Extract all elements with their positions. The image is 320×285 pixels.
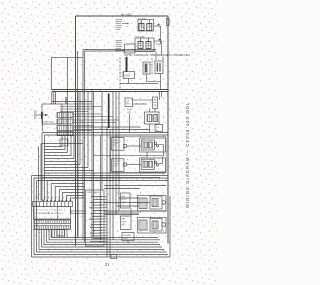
dashed link xyxy=(151,59,153,76)
tiny pin labels above row xyxy=(34,196,70,199)
right mid label box Ra xyxy=(125,98,133,107)
wire xyxy=(58,190,60,201)
wire xyxy=(55,186,84,188)
wire xyxy=(44,161,78,163)
plus marks xyxy=(157,23,160,26)
wire xyxy=(115,92,117,214)
wire xyxy=(85,50,156,52)
wire xyxy=(34,254,168,256)
outer enclosure left edge xyxy=(75,16,77,246)
right box P6 with circle xyxy=(150,219,162,232)
label box N1a xyxy=(112,138,125,151)
wire xyxy=(93,92,95,238)
svg-text:1 2 3 4 5 6 7 8 9 1 0 1 1: 1 2 3 4 5 6 7 8 9 1 0 1 1 xyxy=(35,210,66,212)
wire xyxy=(73,135,75,159)
wire xyxy=(109,130,111,257)
enclosure E1 xyxy=(140,138,166,152)
battery box B2 xyxy=(135,38,154,52)
wire xyxy=(51,183,84,185)
wire xyxy=(44,155,71,157)
staircase verticals xyxy=(41,133,43,201)
wire xyxy=(37,251,167,253)
mid box P2 xyxy=(139,198,147,209)
wire xyxy=(70,135,72,156)
comp box N2b xyxy=(141,159,154,169)
mid box P5 xyxy=(139,220,147,230)
horizontal divider double line xyxy=(51,89,168,91)
lower link rectangle xyxy=(147,74,161,82)
terminal-to-box wires xyxy=(104,210,167,212)
heavy drop wire xyxy=(126,57,128,72)
wire xyxy=(61,193,63,201)
winding box M3 xyxy=(155,61,163,74)
enclosure row1 xyxy=(138,196,167,212)
wires from cluster xyxy=(60,103,92,105)
svg-text:AIR: AIR xyxy=(122,218,126,221)
bottom nested closures xyxy=(51,237,158,239)
wire xyxy=(44,158,74,160)
wire xyxy=(77,51,79,238)
wire xyxy=(65,97,67,104)
wire xyxy=(38,229,40,250)
svg-text:12V BAT: 12V BAT xyxy=(138,17,147,20)
relay stack contacts xyxy=(57,113,74,118)
wire xyxy=(46,180,48,200)
connector hook top right xyxy=(166,19,169,26)
wire xyxy=(46,229,48,242)
wire xyxy=(99,135,101,240)
outer enclosure top edge xyxy=(76,15,169,17)
svg-text:START SOL: START SOL xyxy=(44,121,56,124)
wire xyxy=(43,229,45,245)
wire xyxy=(79,92,81,165)
wire xyxy=(37,180,169,182)
svg-text:RLY: RLY xyxy=(122,202,127,204)
long lower horizontals xyxy=(44,172,166,174)
notes text row xyxy=(124,53,190,57)
outer enclosure right edge xyxy=(167,16,169,244)
verticals into L1 xyxy=(52,92,56,105)
inner box top double line xyxy=(83,49,156,51)
wire xyxy=(106,127,108,257)
block body xyxy=(34,207,71,219)
right bottom verticals xyxy=(169,196,171,257)
wire xyxy=(52,91,168,93)
wire xyxy=(119,197,139,199)
wire xyxy=(82,50,84,241)
wire xyxy=(112,92,114,240)
svg-text:HTR: HTR xyxy=(122,222,127,224)
staircase wires to connector xyxy=(42,177,160,179)
svg-text:NOTE: 1.REMOVE JUMPER WHEN CON: NOTE: 1.REMOVE JUMPER WHEN CONNECTED xyxy=(124,53,190,57)
wire xyxy=(47,179,120,181)
relay line pair to right xyxy=(74,126,140,128)
wire xyxy=(32,256,171,258)
svg-text:CHOKE: CHOKE xyxy=(123,235,131,237)
wire xyxy=(44,164,80,166)
wire xyxy=(44,152,67,154)
wire xyxy=(77,92,79,239)
wire xyxy=(48,229,50,240)
left box top wire xyxy=(51,56,83,58)
bottom tab box xyxy=(111,255,117,259)
drops below xyxy=(52,229,67,237)
paper background xyxy=(0,0,218,285)
wire xyxy=(104,214,139,216)
wire xyxy=(70,197,84,199)
wire xyxy=(101,92,103,191)
left vertical xyxy=(50,57,52,89)
wire xyxy=(44,167,88,169)
terminal block row xyxy=(33,202,73,207)
narrow winding box Rb xyxy=(153,97,158,109)
wire xyxy=(44,170,94,172)
svg-text:B+ NEG: B+ NEG xyxy=(121,12,133,16)
left fan horizontals xyxy=(42,143,84,145)
label box P4 xyxy=(121,216,132,230)
battery box B1 xyxy=(138,20,154,32)
dashed enclosure edge xyxy=(119,58,121,91)
svg-text:27: 27 xyxy=(105,262,110,267)
wire xyxy=(33,178,35,255)
wire stubs from note row xyxy=(127,51,163,62)
label stack 2 with box xyxy=(116,41,123,49)
label above top line xyxy=(121,12,133,16)
svg-text:WIRING DIAGRAM — CF048 400 MDL: WIRING DIAGRAM — CF048 400 MDL xyxy=(185,102,190,208)
wire xyxy=(104,188,140,190)
wire xyxy=(54,187,56,201)
svg-text:12V BAT: 12V BAT xyxy=(136,35,145,38)
svg-text:WIRE TABLE: WIRE TABLE xyxy=(87,191,100,194)
mid verticals bundle xyxy=(66,57,68,153)
wire xyxy=(44,135,46,201)
side title rotated xyxy=(185,102,190,208)
wire xyxy=(44,244,160,246)
coil component M2 xyxy=(143,62,150,74)
pin diamonds xyxy=(42,199,71,201)
page number xyxy=(105,262,110,267)
big enclosure xyxy=(111,137,167,173)
wire xyxy=(116,205,139,207)
wire xyxy=(118,92,120,211)
wire xyxy=(42,132,168,134)
left edge drops xyxy=(38,147,40,201)
battery charger label T1 xyxy=(116,20,129,30)
wire xyxy=(59,189,84,191)
wire xyxy=(62,192,84,194)
label box P1 xyxy=(121,193,131,208)
wire xyxy=(66,195,84,197)
wire from B1 to right xyxy=(156,26,161,44)
enclosure E2 xyxy=(140,158,166,172)
comp box N1b xyxy=(141,140,154,150)
svg-text:HTR: HTR xyxy=(123,238,128,240)
small box below cluster xyxy=(60,139,68,146)
wire xyxy=(61,135,63,147)
small box below block xyxy=(57,230,65,237)
wire xyxy=(84,51,86,242)
wire xyxy=(40,144,42,201)
solenoid coil symbol xyxy=(36,114,49,116)
dense connector teeth rows xyxy=(34,220,71,230)
svg-text:SOL: SOL xyxy=(127,112,132,114)
svg-text:RLY: RLY xyxy=(113,145,118,147)
wire xyxy=(32,175,169,177)
left bundle wrap verticals xyxy=(31,176,33,258)
wire xyxy=(49,239,160,241)
wire xyxy=(36,181,38,253)
svg-text:TB1 TERMINAL BLOCK A: TB1 TERMINAL BLOCK A xyxy=(35,212,62,215)
bottom small box xyxy=(122,233,134,241)
wire xyxy=(52,101,92,103)
start solenoid box L1 xyxy=(42,104,62,124)
svg-text:RLY: RLY xyxy=(122,225,127,227)
wire xyxy=(39,249,164,251)
small label + wire xyxy=(129,114,131,133)
wire xyxy=(50,184,52,201)
label box N2a xyxy=(112,159,125,172)
wire xyxy=(104,202,150,204)
wire xyxy=(104,185,167,187)
svg-text:FUEL: FUEL xyxy=(127,109,133,111)
pair box Rc xyxy=(145,112,160,124)
thick bus xyxy=(108,94,110,129)
wire xyxy=(74,129,150,131)
wire xyxy=(41,229,43,247)
wire xyxy=(44,146,62,148)
wire xyxy=(44,149,65,151)
wire xyxy=(42,246,163,248)
wire xyxy=(45,134,169,136)
svg-text:AIR: AIR xyxy=(122,195,126,198)
wire xyxy=(64,135,66,150)
wire xyxy=(65,196,67,201)
svg-text:HTR: HTR xyxy=(122,199,127,201)
wire xyxy=(47,241,159,243)
right box P3 with circle xyxy=(150,196,162,209)
svg-text:GEN: GEN xyxy=(125,75,130,78)
enclosure row2 xyxy=(138,218,167,234)
small text box Rd xyxy=(155,125,163,132)
wire xyxy=(91,90,93,241)
wire xyxy=(50,229,52,238)
wire xyxy=(87,92,89,168)
wire xyxy=(34,177,168,179)
svg-text:RLY: RLY xyxy=(113,166,118,168)
relay box M1 xyxy=(124,72,135,79)
wire xyxy=(104,212,139,214)
vertical label left of L1 xyxy=(34,111,36,120)
wire xyxy=(69,198,71,201)
